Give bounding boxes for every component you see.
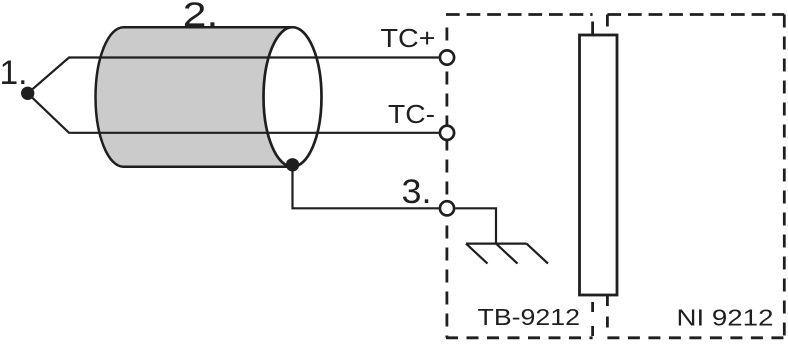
svg-text:2.: 2. xyxy=(183,0,219,34)
svg-text:TC+: TC+ xyxy=(381,25,436,53)
svg-text:NI 9212: NI 9212 xyxy=(677,304,774,330)
svg-text:TB-9212: TB-9212 xyxy=(478,304,581,330)
svg-text:3.: 3. xyxy=(402,173,432,211)
svg-text:TC-: TC- xyxy=(388,101,435,129)
svg-text:1.: 1. xyxy=(0,54,28,92)
